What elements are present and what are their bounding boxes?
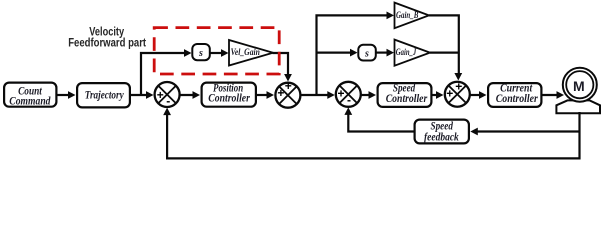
svg-text:Gain_J: Gain_J bbox=[396, 47, 417, 57]
svg-text:+: + bbox=[455, 80, 462, 94]
svg-text:s: s bbox=[198, 48, 203, 59]
svg-text:+: + bbox=[337, 86, 344, 100]
svg-text:Controller: Controller bbox=[386, 91, 428, 105]
svg-text:Command: Command bbox=[9, 94, 51, 108]
svg-text:+: + bbox=[157, 88, 164, 102]
svg-text:Gain_B: Gain_B bbox=[396, 10, 418, 20]
svg-text:M: M bbox=[573, 78, 585, 94]
svg-text:-: - bbox=[347, 93, 351, 107]
svg-text:Controller: Controller bbox=[208, 91, 250, 105]
svg-text:feedback: feedback bbox=[424, 129, 459, 143]
svg-text:Feedforward part: Feedforward part bbox=[68, 38, 146, 50]
svg-text:+: + bbox=[277, 86, 284, 100]
svg-text:-: - bbox=[166, 94, 170, 108]
svg-text:s: s bbox=[364, 48, 369, 59]
svg-text:Controller: Controller bbox=[496, 91, 538, 105]
svg-text:Vel_Gain: Vel_Gain bbox=[231, 47, 260, 57]
svg-text:+: + bbox=[285, 79, 292, 93]
svg-text:+: + bbox=[446, 87, 453, 101]
svg-text:Trajectory: Trajectory bbox=[85, 88, 125, 102]
